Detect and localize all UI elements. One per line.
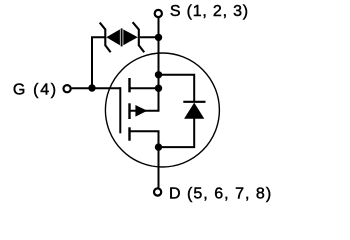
common anode bar of ESD clamp <box>121 28 123 46</box>
wire drain contact stub (left then down to drain node) <box>129 131 158 147</box>
zener diode Z2 (gate-source ESD clamp, right) <box>123 22 144 52</box>
wire body diode lower branch <box>159 118 195 147</box>
svg-text:S (1, 2, 3): S (1, 2, 3) <box>170 3 249 20</box>
wire drain vertical (drain node to D terminal) <box>158 147 160 188</box>
MOSFET Q1 gate electrode <box>119 87 121 133</box>
svg-text:D (5, 6, 7, 8): D (5, 6, 7, 8) <box>169 186 272 203</box>
junction dot diode top node <box>155 71 162 78</box>
wire body connection (arrow wire right then up to source node) <box>130 88 159 111</box>
MOSFET Q1 channel segment top (source contact) <box>128 78 130 92</box>
svg-text:G (4): G (4) <box>13 82 58 99</box>
junction dot drain node <box>155 143 162 150</box>
body diode D1 cathode bar <box>183 101 205 103</box>
terminal S <box>155 10 162 17</box>
wire zener to source line <box>140 36 159 38</box>
body diode D1 (pointing up, anode at drain) <box>184 103 204 119</box>
wire gate horizontal <box>72 87 121 89</box>
zener diode Z1 (gate-source ESD clamp, left) <box>100 23 120 53</box>
terminal G <box>64 85 71 92</box>
terminal D <box>154 188 161 195</box>
MOSFET Q1 channel segment bottom (drain contact) <box>128 127 130 140</box>
wire source contact stub <box>130 87 159 89</box>
junction dot zener-source node <box>155 34 162 41</box>
wire source vertical (S terminal to source node) <box>158 18 160 88</box>
junction dot gate node <box>88 84 95 91</box>
arrow of MOSFET body (P-channel, pointing right) <box>135 105 147 117</box>
wire gate riser (gate node up to zener row) <box>92 37 105 87</box>
transistor envelope <box>105 53 219 167</box>
wire body diode upper branch <box>159 75 195 102</box>
MOSFET Q1 channel segment middle (body contact) <box>128 103 130 119</box>
junction dot source contact node <box>155 85 162 92</box>
